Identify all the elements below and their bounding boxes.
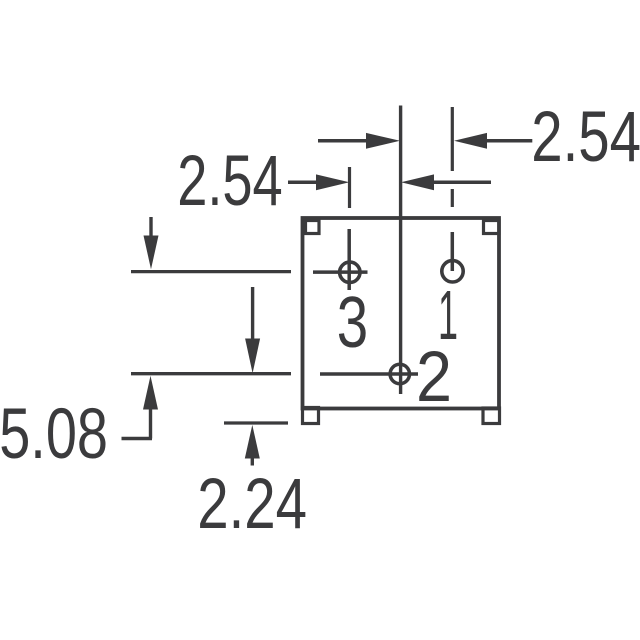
top dimension right arrowhead (454, 133, 487, 149)
top dimension tail left (318, 139, 367, 143)
pin 3 crosshair vertical (347, 229, 351, 290)
dim 5.08 leader (122, 437, 153, 440)
top dimension left arrowhead (366, 133, 400, 149)
dim 5.08 lower arrowhead (143, 376, 158, 410)
bottom-right standoff (483, 408, 500, 424)
pin 3 crosshair horizontal (313, 270, 368, 274)
pin 3 circle (340, 262, 360, 282)
pin 2 circle (390, 364, 409, 383)
dim 5.08 upper arrowhead (144, 236, 159, 270)
dim 2.24 upper arrow tail (251, 287, 254, 339)
left dimension tail right (433, 181, 491, 185)
svg-text:2.54: 2.54 (177, 142, 283, 221)
component body outline (303, 218, 500, 409)
svg-text:2: 2 (416, 338, 452, 417)
bottom extension line (224, 421, 288, 424)
pin 1 column dashed extension line (451, 107, 454, 207)
dim 2.24 upper arrowhead (245, 339, 260, 374)
svg-text:2.54: 2.54 (531, 98, 640, 177)
top-left corner notch (306, 221, 320, 234)
dim 2.24 lower arrow tail (251, 458, 254, 466)
pin 2 crosshair horizontal (320, 372, 418, 376)
pin 1 circle (442, 261, 463, 282)
bottom-left standoff (303, 408, 319, 424)
svg-text:2.24: 2.24 (197, 465, 307, 544)
pin 3 column dashed extension line (348, 167, 351, 208)
left dimension right arrowhead (401, 174, 434, 190)
row 1 extension line (131, 270, 291, 273)
dim 2.24 lower arrowhead (245, 425, 260, 459)
left dimension tail left (288, 181, 318, 185)
dim 5.08 lower arrow tail (149, 409, 152, 439)
svg-text:5.08: 5.08 (0, 395, 108, 474)
svg-text:3: 3 (337, 283, 368, 363)
row 2 extension line (131, 372, 291, 375)
top-right corner notch (484, 221, 500, 234)
dim 5.08 upper arrow tail (149, 217, 152, 236)
top dimension tail right (487, 139, 532, 143)
left dimension left arrowhead (316, 174, 349, 190)
vertical centerline (399, 106, 402, 395)
pin 1 stem (451, 232, 455, 271)
